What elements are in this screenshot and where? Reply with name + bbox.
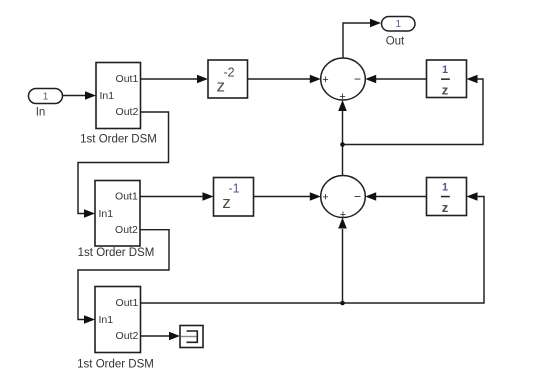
outport Out (port 1) [382, 17, 416, 32]
svg-text:Out2: Out2 [115, 224, 138, 236]
terminator T1 [180, 326, 203, 348]
subsystem U2 1st Order DSM [95, 181, 140, 247]
svg-text:+: + [322, 191, 328, 203]
wire DSM3.Out2 to Terminator [141, 332, 181, 341]
svg-text:z: z [442, 200, 449, 215]
svg-text:Out1: Out1 [115, 191, 138, 203]
svg-text:1st Order DSM: 1st Order DSM [78, 247, 155, 259]
wire DSM3.Out1 to UnitDelay2 input [141, 192, 485, 303]
wire Z2 to Sum1 + input [248, 75, 321, 84]
wire Sum1 output to Out port [343, 19, 381, 58]
svg-text:In1: In1 [99, 314, 114, 326]
svg-text:Out1: Out1 [116, 297, 139, 309]
svg-text:z: z [222, 193, 231, 212]
label 1st Order DSM (U1) [80, 133, 157, 145]
wire J2 to Sum2 + bottom input [338, 218, 347, 304]
svg-text:1: 1 [442, 64, 448, 76]
svg-text:1st Order DSM: 1st Order DSM [80, 133, 157, 145]
wire DSM2.Out2 to DSM3.In1 [78, 230, 169, 324]
svg-text:Out: Out [386, 36, 405, 48]
svg-text:z: z [442, 83, 449, 98]
label In [36, 107, 46, 119]
label 1st Order DSM (U2) [78, 247, 155, 259]
svg-text:1: 1 [43, 91, 49, 102]
unit delay UD1 (1/z) [427, 60, 467, 98]
svg-text:1: 1 [442, 181, 448, 193]
svg-text:z: z [217, 77, 226, 96]
wire DSM2.Out1 to Z1 [140, 192, 214, 201]
sum S2 [321, 176, 366, 221]
svg-text:In: In [36, 107, 46, 119]
svg-text:In1: In1 [99, 208, 114, 220]
svg-text:Out2: Out2 [116, 106, 139, 118]
math block Z1 (z^-1) [214, 178, 254, 217]
wire UnitDelay2 to Sum2 - input [365, 192, 426, 201]
label Out [386, 36, 405, 48]
svg-text:−: − [354, 72, 361, 86]
subsystem U3 1st Order DSM [95, 287, 141, 353]
svg-text:Out2: Out2 [116, 330, 139, 342]
svg-text:+: + [322, 74, 328, 86]
wire In to DSM1.In1 [63, 91, 97, 100]
wire DSM1.Out1 to Z2 [141, 75, 209, 84]
label 1st Order DSM (U3) [77, 359, 154, 371]
math block Z2 (z^-2) [208, 60, 248, 98]
wire Z1 to Sum2 + input [254, 192, 321, 201]
node J2 junction on DSM3.Out1 wire [340, 301, 345, 306]
sum S1 [321, 58, 366, 103]
wire UnitDelay1 to Sum1 - input [365, 75, 426, 84]
inport In (port 1) [29, 89, 63, 104]
svg-text:In1: In1 [100, 90, 115, 102]
svg-text:−: − [354, 189, 361, 203]
subsystem U1 1st Order DSM [96, 63, 141, 129]
svg-text:1: 1 [396, 19, 402, 30]
svg-text:-2: -2 [223, 66, 234, 80]
svg-text:1st Order DSM: 1st Order DSM [77, 359, 154, 371]
node J1 junction on Sum2-Sum1 wire [340, 142, 345, 147]
unit delay UD2 (1/z) [427, 178, 467, 216]
wire Sum2 output to Sum1 + input [338, 100, 347, 176]
svg-text:Out1: Out1 [116, 73, 139, 85]
wire J1 to UnitDelay1 input [343, 75, 484, 145]
wire DSM1.Out2 to DSM2.In1 [78, 112, 169, 218]
